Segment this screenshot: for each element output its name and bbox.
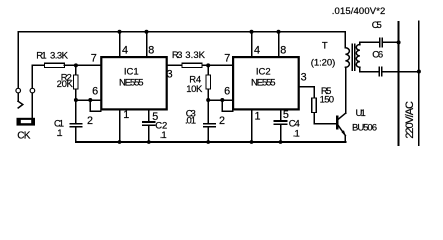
svg-text:20K: 20K [57,79,74,90]
capacitor C5 [379,38,381,47]
svg-text:3: 3 [301,72,307,84]
wire pin 3 IC1 to R3 [167,64,183,66]
wire pin 4 IC1 [119,32,121,56]
wire R1 left lead [32,64,44,66]
svg-text:NE555: NE555 [251,77,276,88]
capacitor C6 [378,67,380,76]
resistor R2 [75,65,77,75]
svg-text:T: T [322,40,328,51]
svg-text:NE555: NE555 [119,77,144,88]
switch CK left contact stub [17,93,19,101]
svg-text:150: 150 [320,94,335,105]
svg-text:2: 2 [219,115,225,127]
transformer T core [351,44,353,70]
transistor Q1 emitter arrowhead [342,130,346,136]
wire pin 8 IC2 [278,32,280,56]
junction C4 rail [279,140,283,144]
svg-text:U1: U1 [356,108,366,119]
svg-text:C6: C6 [372,49,383,60]
resistor R3 [182,63,202,67]
svg-text:CK: CK [17,131,31,142]
svg-text:3.3K: 3.3K [185,50,205,61]
wire R1 branch vertical to switch [31,65,33,88]
svg-text:(1:20): (1:20) [311,57,336,68]
junction pin1 IC1 rail [118,140,122,144]
wire secondary bottom to C6 [360,67,379,71]
junction pin6 pin2 IC1 [88,98,92,102]
wire pin 8 IC1 [146,32,148,56]
wire pin 2 IC1 [90,100,100,111]
wire pin 3 IC2 to R5 [298,87,314,99]
svg-text:3.3K: 3.3K [50,50,69,61]
svg-text:6: 6 [224,85,230,97]
wire bottom ground rail [76,141,346,143]
svg-text:R1: R1 [36,50,47,61]
junction R3 R4 node [206,63,210,67]
wire pin 1 IC2 [251,110,253,143]
IC1 NE555 box [101,57,166,109]
capacitor C3 [207,100,209,124]
wire R3 to pin 7 IC2 [202,64,233,66]
svg-text:R3: R3 [172,50,183,61]
svg-text:4: 4 [122,44,128,56]
switch CK right lead [31,93,33,118]
svg-text:.01: .01 [185,116,196,127]
transformer T secondary coil [356,45,360,68]
svg-text:6: 6 [92,85,98,97]
svg-text:4: 4 [254,44,260,56]
wire left vertical to switch [17,32,19,88]
svg-text:5: 5 [152,111,158,123]
wire pin 6 IC2 [208,99,232,101]
svg-text:7: 7 [91,52,97,64]
junction pin8 IC1 [145,30,149,34]
electrode wire 2 [418,21,420,145]
IC2 NE555 box [233,57,299,109]
electrode wire 1 [398,22,400,145]
transistor Q1 collector [338,113,345,119]
resistor R1 [44,63,64,67]
svg-text:1: 1 [255,111,261,123]
svg-text:BU506: BU506 [352,123,377,134]
junction C5 electrode1 [397,40,401,44]
wire R1 right lead to pin 7 IC1 [64,64,100,66]
capacitor C1 [75,100,77,124]
switch CK button [17,118,36,126]
svg-text:2: 2 [87,115,93,127]
svg-text:1: 1 [123,109,129,121]
wire secondary top to C5 [360,42,380,44]
capacitor C4 on pin 5 IC2 [280,110,282,122]
junction C3 rail [206,140,210,144]
svg-text:IC1: IC1 [124,66,139,77]
svg-text:.1: .1 [57,128,63,139]
svg-text:.1: .1 [293,128,300,139]
svg-text:.015/400V*2: .015/400V*2 [332,6,386,17]
svg-text:3: 3 [167,69,173,81]
svg-text:10K: 10K [186,84,203,95]
junction pin1 IC2 rail [250,140,254,144]
wire collector to transformer primary [345,67,347,113]
wire pin 6 IC1 [76,99,101,101]
wire pin 4 IC2 [251,32,253,56]
wire pin 2 IC2 [222,100,232,111]
svg-text:IC2: IC2 [256,66,271,77]
transformer T primary coil [345,48,349,68]
svg-text:7: 7 [224,53,230,65]
junction C2 rail [147,140,151,144]
resistor R5 [312,98,317,113]
junction pin4 IC2 [250,30,254,34]
svg-text:8: 8 [280,44,286,56]
junction pin8 IC2 [277,30,281,34]
svg-text:220V/AC: 220V/AC [404,101,416,139]
junction pin4 IC1 [118,30,122,34]
svg-text:8: 8 [148,44,154,56]
capacitor C2 on pin 5 IC1 [148,110,150,123]
transistor Q1 emitter [338,126,345,136]
junction R1 R2 node [74,63,78,67]
junction C6 electrode2 [417,70,421,74]
wire emitter to ground rail [344,136,346,142]
junction pin6 pin2 IC2 [220,98,224,102]
svg-text:5: 5 [283,109,289,121]
transformer T primary lead top [344,32,346,48]
svg-text:C5: C5 [372,20,382,31]
wire top supply rail [18,31,345,33]
switch CK terminal circles [16,88,21,93]
wire pin 1 IC1 [119,110,121,143]
junction R2 C1 pin6 [74,98,78,102]
switch CK blade [18,101,23,108]
svg-text:.1: .1 [160,130,167,141]
junction R4 C3 pin6 [206,98,210,102]
transistor Q1 base bar [336,117,338,129]
resistor R4 [207,65,209,75]
